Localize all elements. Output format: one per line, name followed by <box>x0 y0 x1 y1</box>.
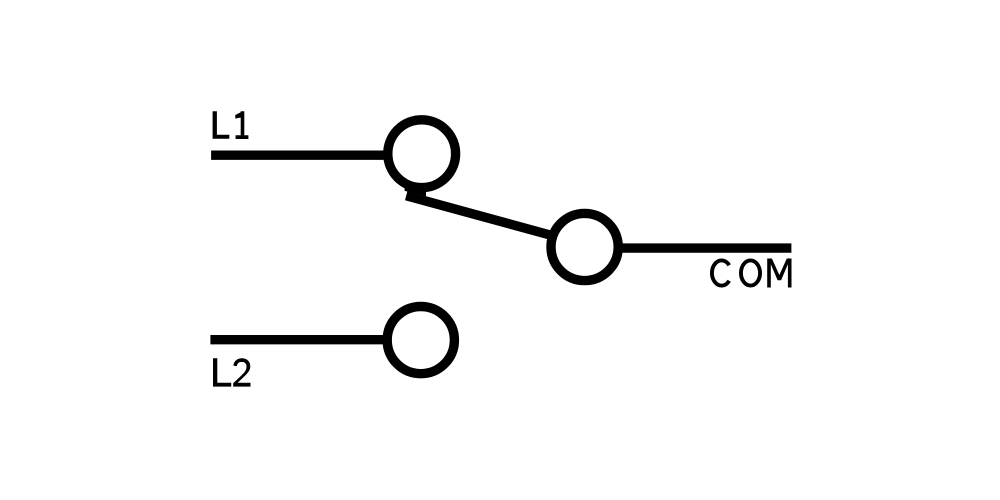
wire COM <box>616 243 791 252</box>
label L2 : digit 2 <box>233 358 250 386</box>
label COM : letter C <box>712 260 729 285</box>
switch lever (pole L1 to COM) <box>406 196 556 237</box>
label COM : letter M <box>767 259 791 288</box>
wire L2 <box>210 335 389 344</box>
terminal circle L1 <box>388 120 456 188</box>
terminal circle L2 <box>387 307 454 374</box>
label COM : letter O <box>741 260 760 285</box>
label L1 : letter L <box>213 111 230 139</box>
label L2 : letter L <box>213 358 231 386</box>
junction fill between lever and L1 terminal <box>405 188 426 196</box>
wire L1 <box>211 150 390 159</box>
label L1 : digit 1 <box>235 111 248 139</box>
terminal circle COM <box>551 213 618 280</box>
